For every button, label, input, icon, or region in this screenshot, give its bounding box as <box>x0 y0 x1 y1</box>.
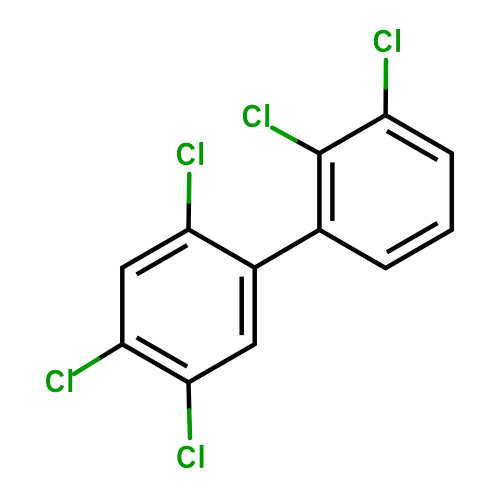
bond C2'-C3' (right ring) <box>319 115 385 153</box>
bond C4=C5 inner line <box>137 337 188 366</box>
bond C3'-Cl green half <box>384 60 389 88</box>
bond C4-Cl green half <box>74 359 98 374</box>
bond C5-C6 (left ring) <box>189 344 255 382</box>
bond C2-Cl black half <box>186 202 191 230</box>
bond C4=C5 outer (left ring) <box>122 344 188 382</box>
bond C1-C2 (left ring) <box>189 229 255 267</box>
bond C6=C1 outer (left ring) <box>252 268 257 345</box>
bond C2'-Cl green half <box>272 128 296 141</box>
atom label Cl on C2' <box>243 104 269 127</box>
bond C5'=C6' inner line <box>387 223 438 252</box>
bond C2=C3 inner line <box>137 245 188 274</box>
atom label Cl on C4 <box>46 369 72 392</box>
bond C6'-C1' (right ring) <box>319 230 385 268</box>
bond C5-Cl black half <box>186 382 191 410</box>
bond C2'-Cl black half <box>296 141 320 154</box>
atom label Cl on C5 <box>177 445 203 468</box>
bond C5'=C6' outer (right ring) <box>386 230 452 268</box>
bond C5-Cl green half <box>187 410 192 438</box>
biphenyl bond C1-C1' <box>255 230 320 268</box>
bond C6=C1 inner line <box>239 277 244 336</box>
bond C1'=C2' outer (right ring) <box>317 153 322 230</box>
bond C4-Cl black half <box>98 344 122 359</box>
bond C3'-Cl black half <box>383 88 388 116</box>
bond C4'-C5' (right ring) <box>450 153 455 230</box>
bond C1'=C2' inner line <box>330 162 335 221</box>
atom label Cl on C2 <box>177 142 203 165</box>
bond C2=C3 outer (left ring) <box>122 229 188 267</box>
bond C3'=C4' outer (right ring) <box>386 115 452 153</box>
bond C2-Cl green half <box>187 174 192 202</box>
atom label Cl on C3' <box>374 29 400 52</box>
bond C3-C4 (left ring) <box>120 268 125 345</box>
bond C3'=C4' inner line <box>387 131 438 160</box>
